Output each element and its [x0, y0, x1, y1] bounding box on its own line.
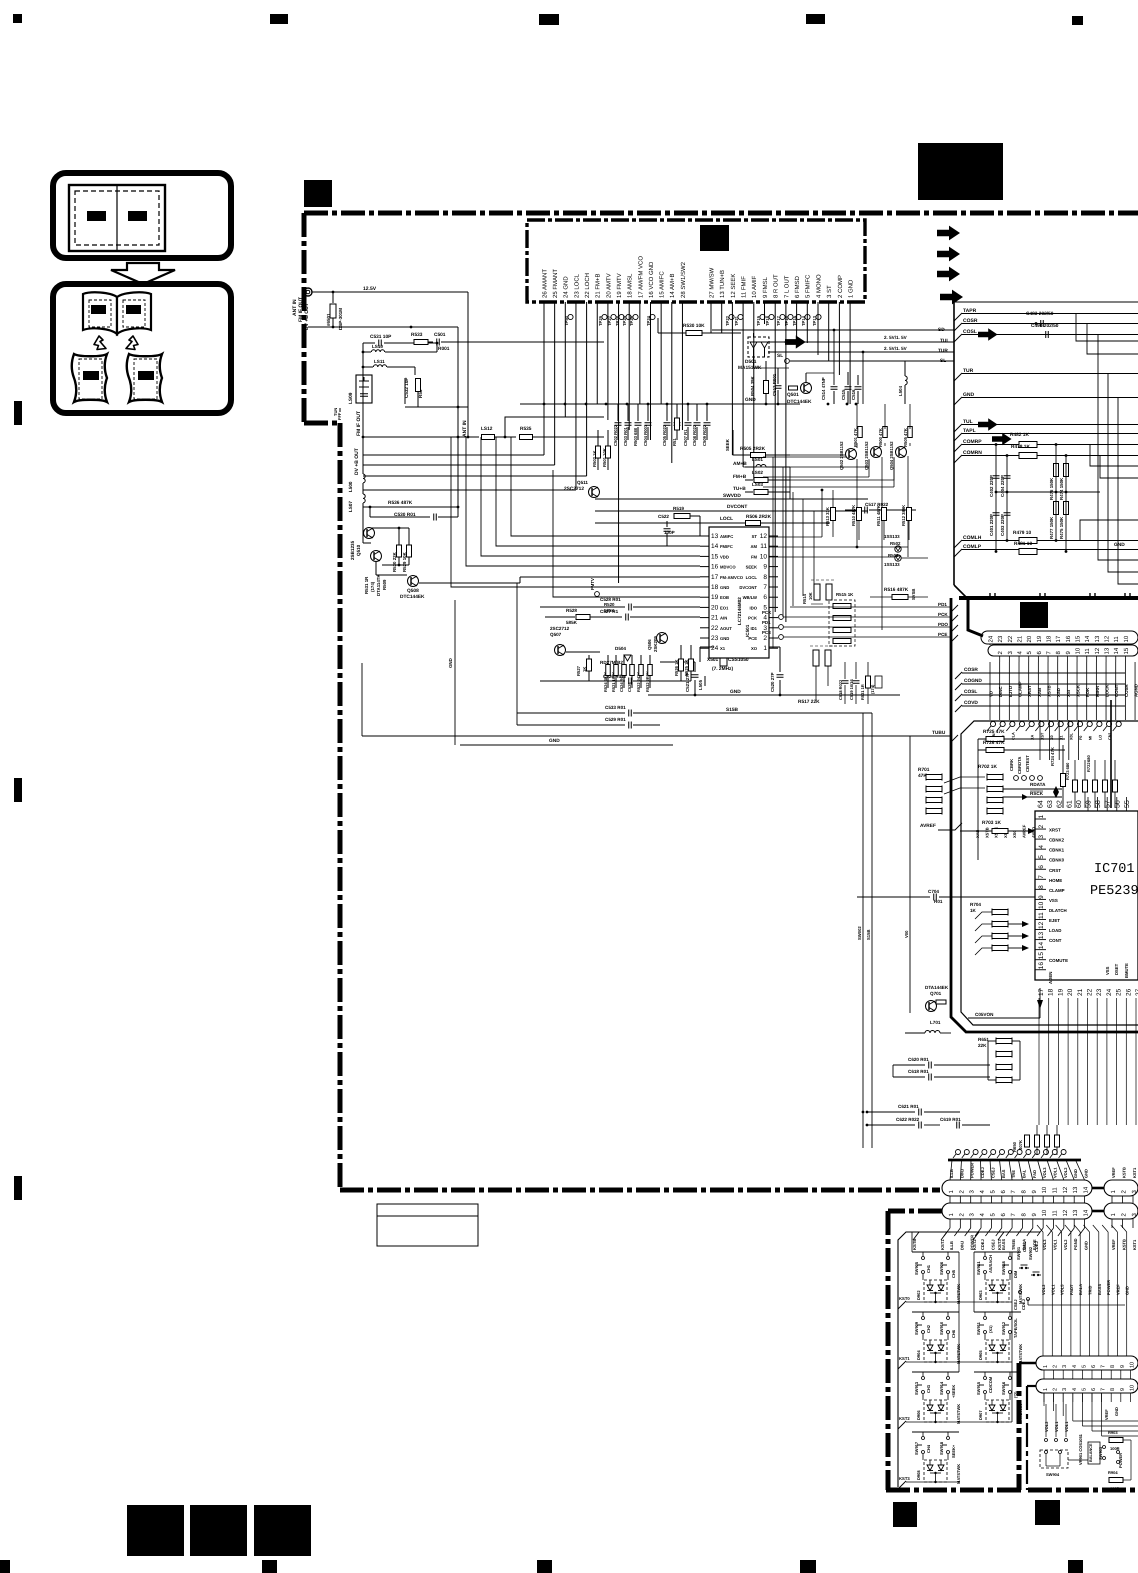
- svg-text:FM-AMVCO: FM-AMVCO: [720, 575, 744, 580]
- svg-text:Q510: Q510: [356, 544, 361, 556]
- svg-text:R476 150K: R476 150K: [1049, 477, 1054, 500]
- svg-text:23: 23: [711, 635, 719, 642]
- svg-text:1: 1: [948, 1190, 955, 1194]
- svg-text:SEEK: SEEK: [725, 438, 730, 451]
- keypad board inner outline: [898, 1232, 1040, 1487]
- svg-text:C483 202/50: C483 202/50: [1026, 311, 1054, 317]
- switch SW9B1 AS/SACH: [974, 1251, 1021, 1253]
- svg-text:1: 1: [1110, 1213, 1117, 1217]
- board outer outline: [951, 598, 1138, 1032]
- wire elbow to tuner: [505, 417, 604, 437]
- svg-text:4: 4: [1017, 650, 1024, 654]
- board inner outline upper: [961, 721, 1138, 1025]
- svg-text:R502: R502: [890, 541, 901, 546]
- switch SW913 CH3: [912, 1371, 959, 1373]
- svg-text:R528: R528: [566, 608, 577, 613]
- connector pad circles row: [956, 1150, 961, 1155]
- svg-text:VOL5: VOL5: [1060, 1284, 1065, 1295]
- wire keypad board border bottom: [886, 1488, 1025, 1493]
- svg-text:R482 1K: R482 1K: [1010, 432, 1029, 438]
- svg-text:R506 2R2K: R506 2R2K: [746, 514, 772, 520]
- wire comrp net vertical2: [1006, 455, 1008, 540]
- svg-text:R516 487K: R516 487K: [884, 587, 909, 593]
- svg-text:C622 R022: C622 R022: [896, 1117, 920, 1122]
- svg-text:3: 3: [1007, 651, 1014, 655]
- svg-text:CDEJ: CDEJ: [1021, 1299, 1026, 1310]
- svg-text:R703 1K: R703 1K: [982, 820, 1001, 826]
- svg-text:(X1): (X1): [988, 1325, 993, 1333]
- svg-text:2SC2712: 2SC2712: [550, 626, 570, 631]
- svg-text:D903: D903: [978, 1290, 983, 1300]
- transistor Q501 DTC144EK: [801, 383, 812, 394]
- svg-text:17: 17: [1055, 635, 1062, 642]
- svg-text:16: 16: [1038, 962, 1045, 970]
- IC701 pin 4 CBNK1: [1035, 848, 1046, 850]
- svg-text:SW915: SW915: [976, 1381, 981, 1395]
- svg-text:10K: 10K: [808, 592, 813, 600]
- svg-text:59: 59: [1086, 800, 1093, 808]
- svg-text:SW916: SW916: [1001, 1381, 1006, 1395]
- svg-text:MI: MI: [1089, 736, 1093, 740]
- diode pair D902 MATSTWK: [924, 1280, 947, 1302]
- wire pin11 base feed: [743, 459, 869, 467]
- svg-text:5: 5: [1081, 1365, 1087, 1368]
- svg-text:16 VCO GND: 16 VCO GND: [648, 261, 655, 298]
- svg-text:R474 150K: R474 150K: [1059, 477, 1064, 500]
- svg-text:KSTB: KSTB: [1122, 1167, 1127, 1178]
- svg-text:KST1: KST1: [1132, 1239, 1137, 1250]
- switch SW911 (X1): [974, 1311, 1021, 1313]
- wire left pin feeds staircase: [511, 437, 700, 536]
- svg-text:R01: R01: [934, 899, 943, 904]
- svg-text:1: 1: [1038, 815, 1045, 819]
- svg-text:PDO: PDO: [938, 622, 948, 627]
- svg-text:5: 5: [1026, 651, 1033, 655]
- svg-text:AS/SACH: AS/SACH: [988, 1255, 993, 1273]
- svg-text:ID1: ID1: [750, 626, 757, 631]
- switch SW909 CH2: [912, 1311, 959, 1313]
- svg-text:X501: X501: [707, 657, 719, 663]
- wire pin10 base feed: [754, 457, 894, 480]
- diode D501 MA151WK: [748, 337, 769, 357]
- svg-text:FM+B: FM+B: [733, 474, 747, 480]
- svg-text:C618 R01: C618 R01: [908, 1069, 929, 1074]
- svg-text:COSR: COSR: [964, 667, 978, 673]
- svg-text:1SS133: 1SS133: [884, 534, 900, 539]
- svg-text:R514: R514: [802, 593, 807, 604]
- wire S15B verticals down: [862, 713, 864, 1148]
- icon panel 2 torn page left: [72, 354, 107, 402]
- svg-text:20 AMTV: 20 AMTV: [605, 273, 612, 298]
- down arrow between icon panels: [111, 263, 175, 284]
- svg-text:SW902: SW902: [1028, 1246, 1033, 1260]
- svg-text:AM+B: AM+B: [733, 461, 747, 467]
- fiducial mark bottom 2: [262, 1560, 277, 1573]
- icon panel 2 book left dashed inset: [89, 300, 111, 327]
- svg-text:R536 487K: R536 487K: [388, 500, 413, 506]
- svg-text:4: 4: [979, 1190, 986, 1194]
- svg-text:CBRK: CBRK: [1009, 759, 1014, 771]
- svg-text:56: 56: [1114, 800, 1121, 808]
- svg-text:6: 6: [1091, 1365, 1097, 1368]
- svg-text:ST: ST: [752, 534, 758, 539]
- svg-text:KSTB: KSTB: [1122, 1239, 1127, 1250]
- svg-text:AMIFC: AMIFC: [720, 534, 733, 539]
- svg-text:12: 12: [1062, 1209, 1069, 1216]
- svg-text:C520 27P: C520 27P: [770, 672, 775, 692]
- svg-text:407K: 407K: [1018, 1140, 1023, 1150]
- svg-text:4: 4: [1072, 1365, 1078, 1368]
- svg-text:LS02: LS02: [752, 470, 763, 475]
- svg-text:VOL1: VOL1: [1053, 1239, 1058, 1250]
- svg-text:C403 220P: C403 220P: [1000, 514, 1005, 536]
- wire V00 vertical: [909, 736, 911, 1013]
- blackout block schematic top-left: [304, 180, 332, 207]
- blackout block below volume box: [1035, 1500, 1060, 1525]
- svg-text:10 AMIF: 10 AMIF: [751, 275, 758, 298]
- svg-text:24: 24: [1106, 988, 1113, 996]
- svg-text:CSS1050: CSS1050: [728, 657, 749, 663]
- svg-text:2SB1235: 2SB1235: [350, 540, 355, 560]
- node COMRN wire: [954, 455, 962, 463]
- svg-text:SW002: SW002: [857, 926, 862, 940]
- svg-text:#6501: #6501: [326, 313, 331, 326]
- svg-text:BALANCE: BALANCE: [1089, 1443, 1093, 1462]
- svg-text:58: 58: [1095, 800, 1102, 808]
- svg-text:2: 2: [1038, 825, 1045, 829]
- svg-text:22 LOCH: 22 LOCH: [584, 273, 591, 298]
- svg-text:21: 21: [1017, 635, 1024, 642]
- svg-text:TUR: TUR: [938, 348, 948, 354]
- wire Q-array feeds: [763, 456, 846, 458]
- svg-text:KST3: KST3: [899, 1476, 910, 1481]
- svg-text:5: 5: [989, 1190, 996, 1194]
- svg-text:ADEN: ADEN: [1048, 972, 1053, 984]
- svg-text:7: 7: [763, 584, 767, 591]
- svg-text:6: 6: [1036, 651, 1043, 655]
- svg-text:VOL2: VOL2: [1063, 1239, 1068, 1250]
- connector CN901 oval row1: [942, 1180, 1092, 1196]
- svg-text:DVCONT: DVCONT: [739, 585, 757, 590]
- svg-text:CDEJ: CDEJ: [980, 1167, 985, 1178]
- svg-text:KST1: KST1: [1132, 1167, 1137, 1178]
- diode pair D907 MATSTWK: [986, 1400, 1009, 1422]
- svg-text:VSS: VSS: [1049, 898, 1058, 903]
- svg-text:21 FM+B: 21 FM+B: [595, 273, 602, 298]
- wire base feed: [375, 561, 377, 575]
- svg-text:VOL2: VOL2: [1063, 1167, 1068, 1178]
- svg-text:FAD: FAD: [1032, 1170, 1037, 1178]
- svg-text:EJET: EJET: [1049, 918, 1060, 923]
- connector tact circles row: [990, 721, 995, 726]
- wire audio board outline top: [954, 301, 1138, 303]
- svg-text:13: 13: [1038, 931, 1045, 939]
- svg-text:12: 12: [1038, 921, 1045, 929]
- svg-text:R477 150K: R477 150K: [1049, 516, 1054, 539]
- svg-text:4: 4: [979, 1213, 986, 1217]
- node GND wire: [954, 397, 962, 405]
- svg-text:7: 7: [1101, 1388, 1107, 1391]
- svg-text:Q511: Q511: [577, 480, 588, 485]
- icon panel 1 (flat sheet) outer rounded box: [53, 173, 231, 258]
- svg-text:PCE: PCE: [762, 630, 771, 635]
- icon panel 2 small arrow right: [126, 336, 138, 350]
- svg-text:C519 10/16: C519 10/16: [849, 679, 854, 700]
- svg-text:VD: VD: [989, 691, 994, 697]
- svg-text:XSI: XSI: [1066, 690, 1071, 697]
- svg-text:3: 3: [1131, 1190, 1138, 1194]
- svg-text:C517 R001: C517 R001: [772, 373, 777, 396]
- switch SW915 CD/COM: [974, 1371, 1021, 1373]
- svg-text:LOCL: LOCL: [720, 516, 733, 522]
- svg-text:3: 3: [1062, 1365, 1068, 1368]
- svg-text:ILLB: ILLB: [949, 1241, 954, 1250]
- svg-text:7: 7: [1038, 875, 1045, 879]
- svg-text:LO: LO: [1098, 735, 1102, 740]
- svg-text:GND: GND: [448, 658, 453, 668]
- wire display connector bar: [959, 596, 1138, 600]
- svg-text:21: 21: [1077, 988, 1084, 996]
- svg-text:2: 2: [997, 651, 1004, 655]
- svg-text:KST1: KST1: [940, 1239, 945, 1250]
- svg-text:7 L OUT: 7 L OUT: [783, 275, 790, 298]
- svg-text:PCK: PCK: [762, 610, 772, 615]
- svg-text:DLATCH: DLATCH: [1049, 908, 1067, 913]
- svg-text:C529 R01: C529 R01: [605, 717, 626, 722]
- svg-text:10: 10: [1129, 1385, 1135, 1391]
- svg-text:C525: C525: [627, 682, 632, 692]
- svg-text:PGND: PGND: [1073, 1238, 1078, 1250]
- svg-text:SL: SL: [940, 358, 946, 364]
- svg-text:GND: GND: [1114, 1407, 1119, 1416]
- switch SW9B8 DIM: [1009, 1252, 1011, 1256]
- svg-text:D904: D904: [916, 1350, 921, 1360]
- wire tuner pin drops right group: [710, 308, 712, 333]
- svg-text:28 SW1/SW2: 28 SW1/SW2: [680, 261, 687, 298]
- connector tick marks on bar: [989, 593, 991, 597]
- fiducial mark bottom 1: [0, 1560, 10, 1573]
- svg-text:22: 22: [1087, 988, 1094, 996]
- svg-text:R515 1K: R515 1K: [836, 592, 854, 597]
- svg-text:SW906: SW906: [939, 1261, 944, 1275]
- svg-text:GND: GND: [1125, 1286, 1130, 1295]
- switch SW912 TAPE/SOL: [1009, 1312, 1011, 1316]
- svg-text:(7. 2MHz): (7. 2MHz): [712, 666, 733, 672]
- wire volume board border feed row1: [1019, 1362, 1036, 1365]
- wire pin22 elbow: [363, 475, 587, 477]
- svg-text:R533: R533: [411, 332, 423, 338]
- node COMLH wire: [954, 540, 962, 548]
- svg-text:POWER: POWER: [1106, 1280, 1111, 1295]
- svg-text:C516: C516: [851, 389, 856, 400]
- svg-text:GND: GND: [745, 397, 756, 403]
- node COSR wire: [954, 323, 962, 331]
- fiducial mark left 1: [14, 401, 22, 425]
- wire PD-row 607: [790, 606, 951, 608]
- svg-text:D906: D906: [916, 1410, 921, 1420]
- svg-text:D905: D905: [978, 1350, 983, 1360]
- svg-text:11: 11: [1052, 1210, 1059, 1217]
- IC501 PLL LC72146 outline: [709, 527, 769, 658]
- wire comr feeds right: [1090, 444, 1138, 466]
- svg-text:V00: V00: [904, 930, 909, 938]
- svg-text:XAB: XAB: [1037, 688, 1042, 697]
- wire verticals pins top: [1039, 720, 1041, 760]
- IC701 pin 6 CRST: [1035, 868, 1046, 870]
- svg-text:63: 63: [1047, 800, 1054, 808]
- svg-text:R531 1R: R531 1R: [364, 576, 369, 594]
- blackout block top-right: [918, 143, 1003, 200]
- svg-text:18: 18: [1046, 635, 1053, 642]
- svg-text:RDATA: RDATA: [1030, 782, 1046, 787]
- node TAPL wire: [954, 433, 962, 441]
- svg-text:11: 11: [1052, 1187, 1059, 1194]
- arrow signal out 2: [937, 247, 960, 262]
- svg-text:VOL1: VOL1: [1053, 1167, 1058, 1178]
- svg-text:PCK: PCK: [748, 616, 757, 621]
- wire volume board links: [1068, 1459, 1088, 1461]
- svg-text:C05VON: C05VON: [975, 1012, 994, 1017]
- svg-text:D902: D902: [916, 1290, 921, 1300]
- svg-text:2SC2712: 2SC2712: [564, 486, 584, 492]
- svg-text:14: 14: [1038, 942, 1045, 950]
- svg-text:5: 5: [989, 1213, 996, 1217]
- svg-text:10: 10: [1041, 1209, 1048, 1216]
- svg-text:R520: R520: [604, 602, 615, 607]
- svg-text:2. 5V/1. 5V: 2. 5V/1. 5V: [884, 346, 908, 351]
- wire input node vertical: [362, 343, 364, 437]
- svg-text:8: 8: [1038, 885, 1045, 889]
- svg-text:R702 1K: R702 1K: [978, 764, 997, 770]
- title block box: [377, 1204, 478, 1246]
- svg-text:19: 19: [1036, 635, 1043, 642]
- svg-text:1SS133: 1SS133: [884, 562, 900, 567]
- svg-text:X1: X1: [720, 646, 726, 651]
- resistor R51x mid: [675, 418, 680, 430]
- svg-text:7: 7: [1046, 651, 1053, 655]
- svg-text:CH5: CH5: [951, 1269, 956, 1278]
- svg-text:5 FMIFC: 5 FMIFC: [805, 274, 812, 298]
- svg-text:(174): (174): [370, 581, 375, 592]
- svg-text:D907: D907: [978, 1410, 983, 1420]
- svg-text:SW905: SW905: [914, 1261, 919, 1275]
- diode pair D906 MATSTWK: [924, 1400, 947, 1422]
- wire TUR column: [862, 352, 864, 404]
- svg-text:11 FMIF: 11 FMIF: [741, 276, 748, 298]
- switch SW903 BALANCE: [1088, 1442, 1100, 1464]
- svg-text:10: 10: [1075, 647, 1082, 654]
- svg-text:R724 47K: R724 47K: [1050, 747, 1055, 766]
- wire right return vertical4: [1108, 373, 1138, 572]
- wire IC701 bottom fan to connector: [1038, 998, 1040, 1125]
- tuner IC U501 blackout label: [700, 225, 729, 251]
- svg-text:14: 14: [1084, 635, 1091, 642]
- connector CN901 oval row2: [942, 1203, 1092, 1219]
- svg-text:R725 47K: R725 47K: [983, 729, 1005, 735]
- svg-text:KST3: KST3: [997, 1239, 1002, 1250]
- wire volume nets down: [1043, 1393, 1045, 1406]
- svg-text:10: 10: [1041, 1186, 1048, 1193]
- fiducial mark bottom 3: [537, 1560, 552, 1573]
- icon panel 2 (folded book) outer rounded box: [53, 284, 231, 413]
- svg-text:1: 1: [763, 645, 767, 652]
- svg-text:C524 R01: C524 R01: [619, 673, 624, 692]
- svg-text:LS09: LS09: [348, 392, 354, 404]
- svg-text:C515: C515: [841, 389, 846, 400]
- svg-text:D504: D504: [615, 646, 626, 651]
- svg-text:20: 20: [711, 604, 719, 611]
- svg-text:LS01: LS01: [752, 457, 763, 462]
- svg-text:11: 11: [1038, 912, 1045, 919]
- svg-text:CONT: CONT: [1049, 938, 1062, 943]
- svg-text:DSET: DSET: [1114, 963, 1119, 975]
- svg-text:SEEK+: SEEK+: [951, 1444, 956, 1458]
- svg-text:MATSTWK: MATSTWK: [956, 1464, 961, 1484]
- icon panel 2 torn page right: [127, 354, 162, 402]
- svg-text:AGND: AGND: [1134, 684, 1138, 697]
- svg-text:SW9B8: SW9B8: [1001, 1260, 1006, 1275]
- svg-text:R513 33K: R513 33K: [825, 507, 830, 526]
- svg-text:6 FMSD: 6 FMSD: [794, 275, 801, 298]
- svg-text:20: 20: [1026, 635, 1033, 642]
- svg-text:2: 2: [1121, 1190, 1128, 1194]
- svg-text:60: 60: [1076, 800, 1083, 808]
- svg-text:15: 15: [1123, 647, 1130, 654]
- svg-text:R509: R509: [382, 579, 387, 590]
- wire r-network mid horizontal: [996, 491, 1100, 493]
- svg-text:C704: C704: [928, 889, 939, 894]
- wire main board border left step: [304, 421, 340, 426]
- svg-text:6: 6: [1000, 1190, 1007, 1194]
- svg-text:CBTEST: CBTEST: [1025, 755, 1030, 772]
- svg-text:XO: XO: [751, 646, 758, 651]
- filter LS09: [356, 375, 372, 403]
- svg-text:CSEJ: CSEJ: [990, 1240, 995, 1250]
- svg-text:RSCK: RSCK: [1030, 791, 1044, 796]
- svg-text:20: 20: [1067, 988, 1074, 996]
- IC701 pin 12 LOAD: [1035, 929, 1046, 931]
- svg-text:15: 15: [711, 553, 719, 560]
- svg-text:14: 14: [711, 543, 719, 550]
- connector CN display oval row B: [988, 645, 1138, 656]
- svg-text:3: 3: [1038, 835, 1045, 839]
- svg-text:VOL1: VOL1: [1050, 1284, 1055, 1295]
- svg-text:R704: R704: [970, 902, 981, 907]
- switch SW910 CH6: [947, 1312, 949, 1316]
- wire emitter bus: [382, 564, 409, 566]
- switch SW906 CH5: [947, 1252, 949, 1256]
- svg-text:GND: GND: [1114, 542, 1125, 548]
- wire pin26 elbow: [363, 454, 544, 456]
- svg-text:CBNK0: CBNK0: [1049, 858, 1065, 863]
- svg-text:FOK: FOK: [1085, 687, 1090, 697]
- switch SW914 +SEEK: [947, 1372, 949, 1376]
- svg-text:AIN: AIN: [720, 616, 727, 621]
- icon panel 2 small arrow left: [94, 336, 106, 350]
- svg-text:17: 17: [1038, 988, 1045, 996]
- connector CN903 oval row1: [1036, 1356, 1138, 1370]
- svg-text:26 AMANT: 26 AMANT: [541, 269, 548, 298]
- svg-text:C514 47NP: C514 47NP: [821, 377, 826, 400]
- svg-text:C518 R022: C518 R022: [838, 679, 843, 700]
- svg-text:13: 13: [1072, 1186, 1079, 1193]
- svg-text:22: 22: [1007, 635, 1014, 642]
- svg-text:680: 680: [1086, 755, 1091, 762]
- svg-text:CLAMP: CLAMP: [1049, 888, 1065, 893]
- svg-text:18: 18: [1048, 988, 1055, 996]
- svg-text:AM: AM: [750, 544, 757, 549]
- svg-text:19: 19: [711, 594, 719, 601]
